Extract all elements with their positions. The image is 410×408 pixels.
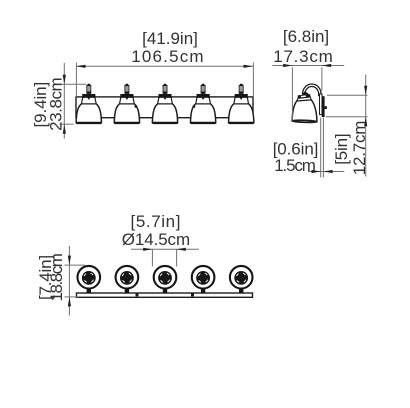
svg-text:[9.4in]: [9.4in] [31, 82, 50, 128]
svg-text:[6.8in]: [6.8in] [283, 27, 329, 46]
height dimension 23.8cm [60, 63, 87, 139]
svg-text:[5in]: [5in] [332, 134, 351, 165]
screw dot left [135, 105, 137, 107]
side shade bell [292, 100, 317, 122]
backplate bar [76, 97, 253, 118]
plan shade 4 [192, 266, 215, 293]
shade 5 [228, 84, 254, 125]
wall plate flange [320, 94, 323, 115]
plan screw dot left [136, 293, 139, 297]
side shade neck [297, 97, 311, 101]
plan shade 1 [78, 266, 101, 293]
shade 2 [114, 84, 140, 125]
plan shade 3 [154, 266, 177, 293]
shade 4 [190, 84, 216, 125]
side width dimension 17.3cm [272, 66, 344, 121]
side shade rim [292, 120, 317, 123]
svg-text:Ø14.5cm: Ø14.5cm [122, 230, 190, 249]
svg-text:[5.7in]: [5.7in] [131, 212, 182, 231]
shade 1 [76, 84, 102, 125]
plan shade 5 [230, 266, 253, 293]
plan screw dot right [191, 293, 194, 297]
plate height dimension 12.7cm [326, 75, 368, 177]
plan shade 2 [116, 266, 139, 293]
svg-text:1.5cm: 1.5cm [274, 156, 316, 175]
width dimension 106.5cm [76, 63, 253, 97]
elbow [302, 91, 309, 96]
gooseneck arm [303, 84, 322, 96]
svg-text:106.5cm: 106.5cm [131, 47, 205, 66]
side shade cap [298, 94, 311, 99]
plate depth dimension 1.5cm [308, 118, 344, 178]
mounting screw nub [325, 106, 327, 109]
svg-text:[41.9in]: [41.9in] [142, 29, 198, 48]
plan bar [77, 293, 253, 297]
svg-text:[7.4in]: [7.4in] [36, 255, 55, 300]
svg-text:12.7cm: 12.7cm [350, 121, 369, 176]
screw dot right [193, 105, 195, 107]
wall plate [322, 96, 325, 117]
diameter dimension 14.5cm [131, 249, 199, 266]
svg-text:17.3cm: 17.3cm [273, 47, 333, 66]
shade 3 [152, 84, 178, 125]
plan depth dimension 18.8cm [65, 246, 86, 316]
